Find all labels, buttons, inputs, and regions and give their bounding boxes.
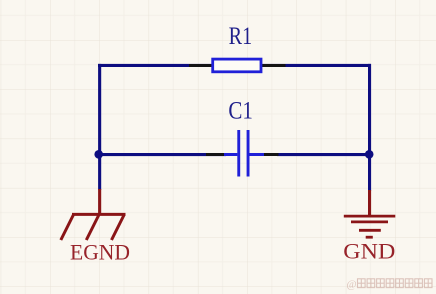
- junction right node: [365, 150, 374, 159]
- label GND: [343, 239, 395, 264]
- ground GND symbol: [344, 216, 396, 237]
- junction left node: [94, 150, 103, 159]
- resistor R1 pin 1: [189, 64, 212, 67]
- svg-text:EGND: EGND: [70, 240, 130, 265]
- wire middle left segment: [98, 153, 226, 156]
- capacitor C1 pin 1: [206, 153, 225, 156]
- label C1: [228, 98, 253, 125]
- svg-text:@: @: [347, 279, 357, 291]
- svg-text:C1: C1: [228, 98, 253, 125]
- wire top horizontal net: [98, 64, 371, 67]
- capacitor C1: [224, 130, 264, 177]
- resistor R1: [213, 59, 261, 72]
- label EGND: [70, 240, 130, 265]
- GND stem: [368, 190, 371, 217]
- svg-text:R1: R1: [229, 23, 253, 50]
- EGND stem: [98, 189, 101, 216]
- wire left vertical: [98, 64, 101, 190]
- resistor R1 pin 2: [262, 64, 286, 67]
- wire middle right segment: [277, 153, 371, 156]
- wire right vertical: [368, 64, 371, 191]
- watermark: [347, 279, 433, 291]
- label R1: [229, 23, 253, 50]
- capacitor C1 pin 2: [264, 153, 279, 156]
- svg-text:GND: GND: [343, 239, 395, 264]
- ground EGND (earth) symbol: [61, 214, 126, 240]
